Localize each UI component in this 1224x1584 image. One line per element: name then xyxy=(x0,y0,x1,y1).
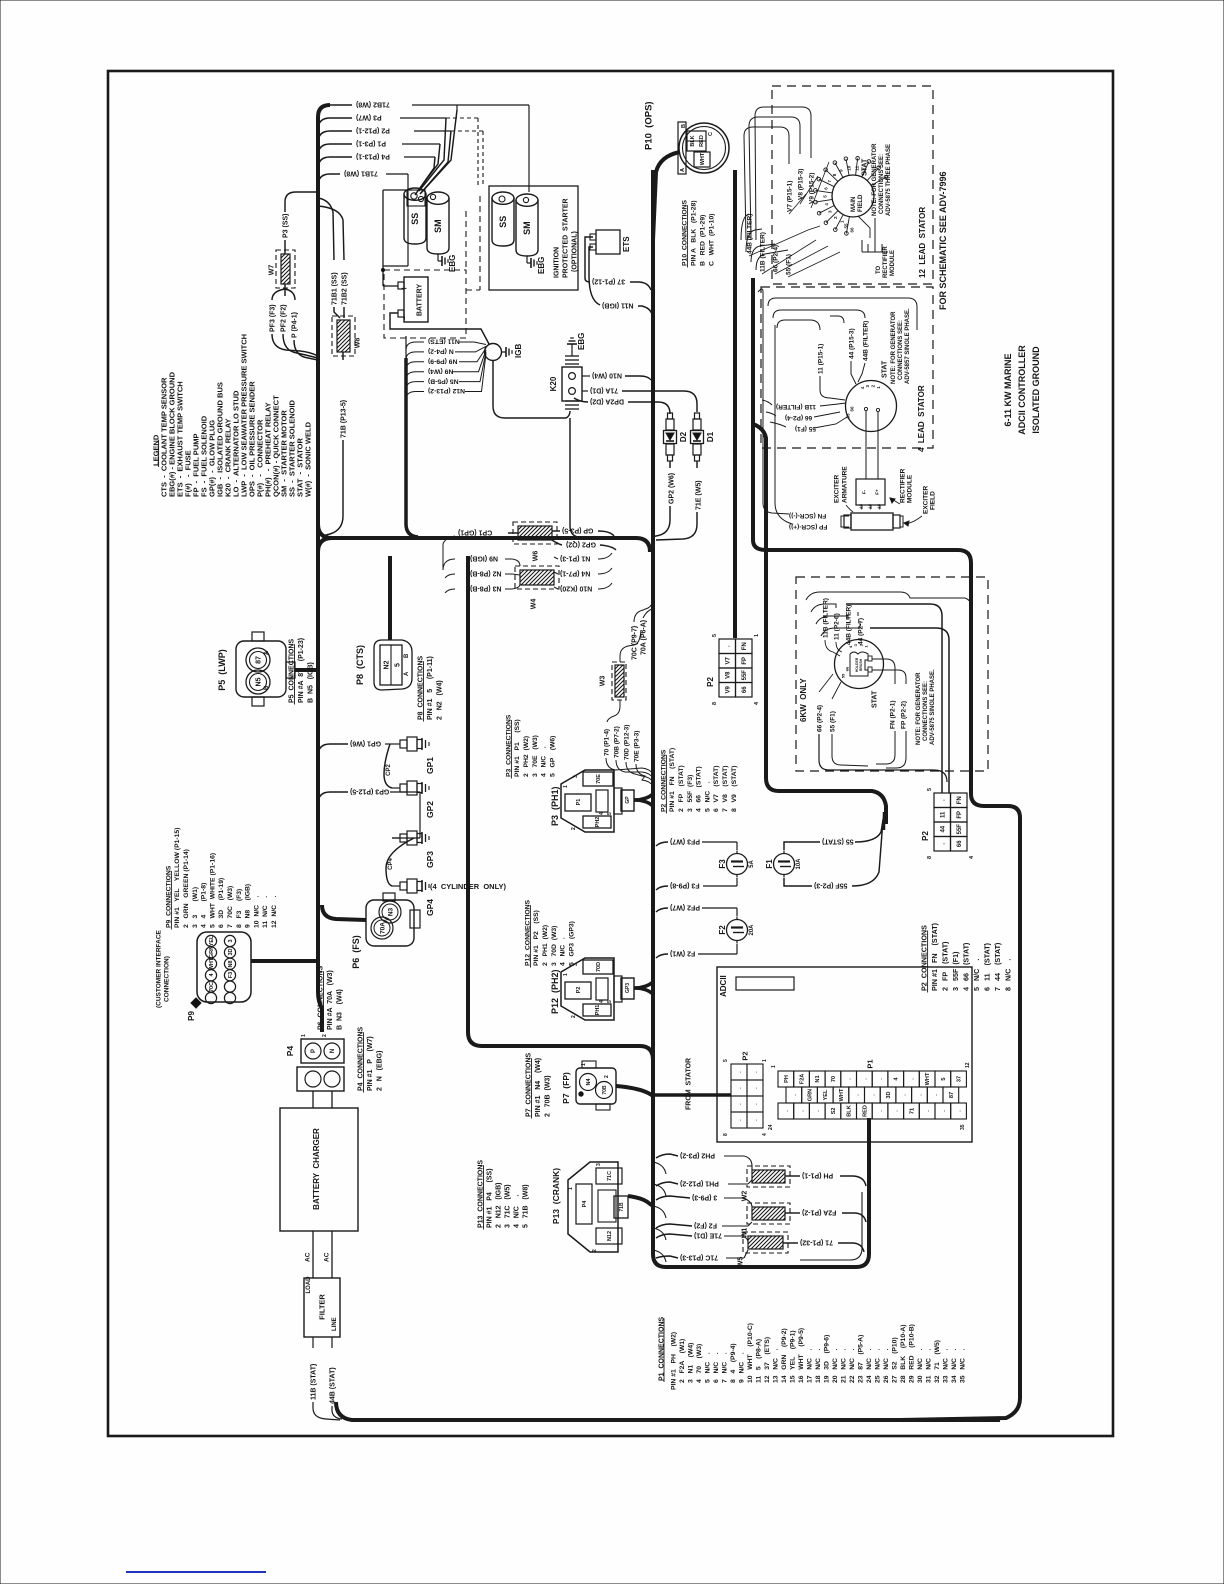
P9 diamond marker xyxy=(191,998,201,1008)
svg-text:FP (SCR-(+)): FP (SCR-(+)) xyxy=(789,523,827,530)
svg-text:W3: W3 xyxy=(600,676,607,687)
svg-text:10 N/C .: 10 N/C . xyxy=(253,895,260,928)
ground EBG under SM2 xyxy=(526,256,528,263)
svg-text:31 N/C .: 31 N/C . xyxy=(925,1349,932,1383)
svg-text:V7 (P15-1): V7 (P15-1) xyxy=(786,181,793,212)
svg-text:11: 11 xyxy=(940,811,946,818)
svg-text:K20: K20 xyxy=(549,376,558,391)
svg-text:F3: F3 xyxy=(718,859,727,869)
svg-text:5 GP (W6): 5 GP (W6) xyxy=(549,736,556,777)
svg-text:A: A xyxy=(680,168,686,172)
svg-text:P2: P2 xyxy=(921,831,930,841)
svg-text:IGNITION: IGNITION xyxy=(554,247,561,278)
svg-text:11B (STAT): 11B (STAT) xyxy=(310,1364,317,1400)
svg-text:5: 5 xyxy=(607,1000,613,1003)
svg-text:13 N/C .: 13 N/C . xyxy=(772,1349,779,1383)
svg-text:P6 (FS): P6 (FS) xyxy=(351,935,361,969)
svg-text:8 F3 (F3): 8 F3 (F3) xyxy=(236,889,243,928)
connector P6 (FS) xyxy=(366,900,414,946)
svg-text:5: 5 xyxy=(941,1077,947,1080)
svg-text:P1 (P3-1): P1 (P3-1) xyxy=(356,140,386,147)
svg-text:22 N/C .: 22 N/C . xyxy=(849,1349,856,1383)
fuse F2 xyxy=(727,920,748,941)
svg-text:55F: 55F xyxy=(957,824,963,835)
wire from stator to P2 grid xyxy=(653,1093,731,1097)
battery wiring xyxy=(382,190,384,286)
svg-text:P4: P4 xyxy=(582,1200,588,1208)
svg-text:3D: 3D xyxy=(886,1091,892,1098)
svg-text:35 N/C .: 35 N/C . xyxy=(959,1349,966,1383)
svg-text:ARMATURE: ARMATURE xyxy=(841,466,848,503)
svg-text:5 N/C .: 5 N/C . xyxy=(704,781,711,812)
connector P2 (upper) xyxy=(719,639,736,654)
svg-text:CP1 (GP1): CP1 (GP1) xyxy=(458,529,492,536)
bottom long harness run xyxy=(336,1402,1000,1420)
svg-text:4 N/C .: 4 N/C . xyxy=(514,1194,521,1228)
battery charger box xyxy=(280,1108,358,1231)
svg-text:FN: FN xyxy=(742,642,748,650)
svg-text:3 70D (W3): 3 70D (W3) xyxy=(551,926,558,966)
svg-text:5 N/C .: 5 N/C . xyxy=(704,1352,711,1383)
svg-text:P2: P2 xyxy=(706,677,715,687)
connector P7 (FP) xyxy=(576,1068,616,1104)
4 lead stator circle xyxy=(846,381,897,432)
sonic weld W6 xyxy=(513,522,557,544)
svg-text:FP: FP xyxy=(957,811,963,819)
W7 branch wires PF3/PF2/P xyxy=(284,284,286,289)
svg-text:PIN #1 5 (P1-11): PIN #1 5 (P1-11) xyxy=(427,656,434,720)
connector P13 (CRANK) xyxy=(568,1162,618,1252)
12 lead stator dashed box xyxy=(772,86,933,284)
W1 wires xyxy=(656,1196,690,1200)
svg-text:N3 (P8-B): N3 (P8-B) xyxy=(470,585,502,592)
svg-text:8 4 (P9-4): 8 4 (P9-4) xyxy=(730,1343,737,1383)
K20 wire DP2A (D2) xyxy=(574,398,588,402)
svg-text:71E (W5): 71E (W5) xyxy=(696,480,703,510)
svg-text:FN (SCR-(-)): FN (SCR-(-)) xyxy=(789,512,826,519)
svg-text:1: 1 xyxy=(568,1187,574,1190)
svg-text:26 N/C .: 26 N/C . xyxy=(883,1349,890,1383)
drawing border frame xyxy=(108,71,1113,1436)
svg-text:(4 CYLINDER ONLY): (4 CYLINDER ONLY) xyxy=(430,882,506,891)
svg-text:7 70C (W3): 7 70C (W3) xyxy=(227,886,234,928)
filter output wires 11B 44B xyxy=(312,1337,314,1348)
svg-text:1: 1 xyxy=(771,1065,777,1068)
svg-text:V8: V8 xyxy=(725,671,731,679)
svg-text:71B1 (W8): 71B1 (W8) xyxy=(344,170,378,177)
svg-text:CONNECTIONS SEE:: CONNECTIONS SEE: xyxy=(879,154,885,214)
svg-text:P1: P1 xyxy=(576,799,582,806)
svg-text:AC: AC xyxy=(304,1252,311,1262)
svg-text:FP (P2-2): FP (P2-2) xyxy=(900,701,907,729)
wire to second starter xyxy=(457,104,529,106)
svg-text:PF2 (F2): PF2 (F2) xyxy=(280,304,287,332)
4 lead thin wire runs xyxy=(758,289,789,514)
svg-text:70E: 70E xyxy=(596,774,602,784)
svg-text:2 PH1 (W2): 2 PH1 (W2) xyxy=(542,925,549,966)
starter motor SM (starter 1) xyxy=(427,198,449,254)
svg-text:12: 12 xyxy=(965,1062,971,1068)
svg-text:15 YEL (P9-1): 15 YEL (P9-1) xyxy=(789,1330,796,1383)
svg-text:35: 35 xyxy=(960,1124,966,1130)
svg-text:1: 1 xyxy=(969,788,975,791)
svg-text:87: 87 xyxy=(949,1092,955,1098)
svg-text:SS: SS xyxy=(498,216,508,228)
svg-text:GP4: GP4 xyxy=(425,899,435,916)
svg-text:2 F2A (W1): 2 F2A (W1) xyxy=(679,1339,686,1383)
W8 top wires 71B1/71B2 (SS) xyxy=(318,198,334,260)
connector P4 xyxy=(301,1039,344,1063)
svg-text:GRN: GRN xyxy=(808,1089,814,1101)
svg-text:N: N xyxy=(330,1049,336,1053)
svg-text:10A: 10A xyxy=(796,858,802,870)
svg-text:YEL: YEL xyxy=(209,935,215,946)
svg-text:N11 (ETS): N11 (ETS) xyxy=(428,338,460,345)
svg-text:71C (P13-3): 71C (P13-3) xyxy=(680,1254,718,1261)
K20 lower wire to harness xyxy=(570,418,636,538)
svg-text:PIN #1 FN (STAT): PIN #1 FN (STAT) xyxy=(930,922,939,991)
svg-text:F2A (P1-2): F2A (P1-2) xyxy=(802,1209,836,1216)
svg-text:18 N/C .: 18 N/C . xyxy=(815,1349,822,1383)
svg-text:P7 (FP): P7 (FP) xyxy=(561,1072,571,1104)
harness run right side middle xyxy=(753,278,1020,1420)
svg-text:PH1: PH1 xyxy=(595,1005,601,1016)
svg-text:SM: SM xyxy=(522,221,532,235)
svg-text:12 37 (ETS): 12 37 (ETS) xyxy=(764,1337,771,1383)
svg-text:CONNECTIONS SEE:: CONNECTIONS SEE: xyxy=(898,320,904,380)
svg-text:5 N/C .: 5 N/C . xyxy=(972,959,981,991)
svg-text:2 N (EBG): 2 N (EBG) xyxy=(376,1051,383,1091)
svg-text:PH2 (P3-2): PH2 (P3-2) xyxy=(680,1152,715,1159)
svg-text:19 3D (P9-6): 19 3D (P9-6) xyxy=(823,1335,830,1383)
svg-text:2 PH2 (W2): 2 PH2 (W2) xyxy=(523,736,530,777)
svg-text:11 N/C .: 11 N/C . xyxy=(262,896,269,928)
crank relay K20 xyxy=(562,367,582,401)
P13 harness stub arcs xyxy=(653,1162,666,1174)
wires fanning to starter solenoid xyxy=(421,110,457,193)
svg-text:F2 (W1): F2 (W1) xyxy=(670,950,695,957)
svg-text:W6: W6 xyxy=(533,551,540,562)
svg-text:4: 4 xyxy=(599,1000,605,1003)
dashed optional starter wires xyxy=(446,117,478,119)
4 lead label-to-pin wires xyxy=(820,376,845,400)
svg-text:4 70 (W3): 4 70 (W3) xyxy=(696,1344,703,1383)
svg-text:4: 4 xyxy=(762,1133,768,1136)
wires charger to filter AC xyxy=(312,1231,314,1278)
svg-text:W(#) - SONIC WELD: W(#) - SONIC WELD xyxy=(304,421,313,497)
glow plug GP2 xyxy=(392,787,400,789)
ADCII controller box xyxy=(717,967,972,1142)
svg-text:ADV-5875 SINGLE PHASE.: ADV-5875 SINGLE PHASE. xyxy=(930,669,936,745)
svg-text:3 3 (W1): 3 3 (W1) xyxy=(192,887,199,928)
svg-text:2 FP (STAT): 2 FP (STAT) xyxy=(941,941,950,991)
svg-text:30 N/C .: 30 N/C . xyxy=(917,1349,924,1383)
svg-text:EBG: EBG xyxy=(577,333,586,350)
svg-text:N12 (P13-2): N12 (P13-2) xyxy=(428,387,465,394)
svg-text:11 (P15-1): 11 (P15-1) xyxy=(817,344,824,374)
svg-text:37: 37 xyxy=(957,1076,963,1082)
svg-text:GP1 (W6): GP1 (W6) xyxy=(350,740,381,747)
svg-text:70C: 70C xyxy=(209,982,215,992)
svg-text:70A: 70A xyxy=(379,922,386,934)
svg-text:70 (P1-4): 70 (P1-4) xyxy=(603,729,610,756)
svg-text:GP2: GP2 xyxy=(425,801,435,818)
svg-text:P5 (LWP): P5 (LWP) xyxy=(217,649,227,691)
svg-text:GP3: GP3 xyxy=(425,851,435,868)
svg-text:BATTERY CHARGER: BATTERY CHARGER xyxy=(312,1128,321,1210)
W8 bottom wire 71B (P13-5) xyxy=(342,352,344,360)
6kw FN FP wires xyxy=(872,659,895,684)
svg-text:11: 11 xyxy=(855,165,860,170)
svg-text:2 N2 (W4): 2 N2 (W4) xyxy=(436,680,443,720)
svg-text:ADV-5857 SINGLE PHASE.: ADV-5857 SINGLE PHASE. xyxy=(905,308,911,384)
svg-text:WHT: WHT xyxy=(209,957,215,970)
svg-text:C: C xyxy=(708,132,714,136)
svg-text:6 V7 (STAT): 6 V7 (STAT) xyxy=(713,765,720,812)
svg-text:2 N12 (IGB): 2 N12 (IGB) xyxy=(495,1182,502,1228)
svg-text:66: 66 xyxy=(850,406,855,412)
svg-text:5 GP3 (GP3): 5 GP3 (GP3) xyxy=(568,921,575,966)
svg-text:5: 5 xyxy=(927,788,933,791)
svg-text:-: - xyxy=(398,316,410,320)
svg-text:W4: W4 xyxy=(531,599,538,610)
6KW ONLY dashed box xyxy=(796,577,988,771)
svg-text:70D (P12-3): 70D (P12-3) xyxy=(623,725,630,760)
svg-text:P1: P1 xyxy=(866,1059,875,1068)
svg-text:CONNECTION): CONNECTION) xyxy=(163,956,170,1002)
svg-text:N8: N8 xyxy=(228,960,234,967)
svg-text:P9: P9 xyxy=(187,1011,196,1021)
wire stubs top (71B2/P3/P2/P1/P4) xyxy=(318,105,352,117)
svg-text:11 5 (P8-A): 11 5 (P8-A) xyxy=(755,1339,762,1383)
svg-text:4 LEAD STATOR: 4 LEAD STATOR xyxy=(917,385,926,452)
svg-text:24 N/C .: 24 N/C . xyxy=(866,1349,873,1383)
svg-text:GP (P3-5): GP (P3-5) xyxy=(562,527,593,534)
svg-text:24: 24 xyxy=(768,1124,774,1130)
svg-text:4: 4 xyxy=(599,812,605,815)
svg-text:70D: 70D xyxy=(596,962,602,972)
stator leads down to rectifier module xyxy=(865,411,867,479)
GP4 jumper xyxy=(386,838,414,886)
svg-text:AC: AC xyxy=(323,1252,330,1262)
K20 wire 71A (D1) xyxy=(582,390,588,392)
svg-text:P12 (PH2): P12 (PH2) xyxy=(550,969,560,1014)
svg-text:66 (P2-4): 66 (P2-4) xyxy=(816,705,823,732)
svg-text:PIN #1 P1 (SS): PIN #1 P1 (SS) xyxy=(514,719,521,777)
P12 wire to harness xyxy=(634,988,653,994)
isolated ground bus IGB xyxy=(485,344,502,361)
svg-text:P3 (PH1): P3 (PH1) xyxy=(550,786,560,826)
svg-text:N4 (P7-1): N4 (P7-1) xyxy=(560,570,590,577)
svg-text:55 (STAT): 55 (STAT) xyxy=(822,838,854,845)
svg-text:2: 2 xyxy=(592,1249,598,1252)
svg-text:5: 5 xyxy=(723,1059,729,1062)
svg-text:F3: F3 xyxy=(228,972,234,978)
stator leads to rectifier xyxy=(868,218,882,252)
svg-text:PH2: PH2 xyxy=(595,817,601,828)
svg-text:(OPTIONAL): (OPTIONAL) xyxy=(572,231,579,272)
P10 harness elbow xyxy=(653,152,680,240)
svg-text:2: 2 xyxy=(322,1034,328,1037)
ground EBG under SM1 xyxy=(437,254,439,261)
svg-text:16 WHT (P9-5): 16 WHT (P9-5) xyxy=(798,1328,805,1383)
svg-text:71A (D1): 71A (D1) xyxy=(590,387,618,394)
svg-text:W8: W8 xyxy=(354,338,361,349)
ignition protected starter box xyxy=(489,186,578,290)
svg-text:1: 1 xyxy=(762,1059,768,1062)
svg-text:DP2A (D2): DP2A (D2) xyxy=(590,398,624,405)
svg-text:66: 66 xyxy=(742,686,748,693)
svg-text:6-11 KW MARINE: 6-11 KW MARINE xyxy=(1003,353,1013,426)
battery negative wire xyxy=(390,313,489,344)
svg-text:2 GRN GREEN (P1-14): 2 GRN GREEN (P1-14) xyxy=(183,849,190,928)
glow plug GP3 xyxy=(392,837,400,839)
svg-text:PIN #1 FN (STAT): PIN #1 FN (STAT) xyxy=(669,748,676,812)
svg-text:P8 (CTS): P8 (CTS) xyxy=(355,645,365,685)
svg-text:D2: D2 xyxy=(679,431,688,442)
svg-text:N10 (K20): N10 (K20) xyxy=(560,585,592,592)
svg-text:WHT: WHT xyxy=(839,1088,845,1101)
svg-text:-AC: -AC xyxy=(877,503,881,510)
svg-text:PIN #1 P4 (SS): PIN #1 P4 (SS) xyxy=(486,1168,493,1228)
svg-text:WHT: WHT xyxy=(700,152,706,165)
wire stub 71B1 (W8) xyxy=(318,174,340,186)
svg-text:BATTERY: BATTERY xyxy=(416,284,423,317)
P6 wire to harness xyxy=(322,905,366,920)
connector P9 (customer interface) xyxy=(197,932,251,1002)
svg-text:BRUSH: BRUSH xyxy=(859,658,863,671)
svg-text:SM: SM xyxy=(433,219,443,233)
solenoid terminal studs xyxy=(411,193,417,199)
svg-text:34 N/C .: 34 N/C . xyxy=(951,1349,958,1383)
svg-text:BLK: BLK xyxy=(690,135,696,146)
svg-text:66: 66 xyxy=(957,840,963,847)
starter solenoid SS (starter 1) xyxy=(404,194,426,244)
svg-text:EBG: EBG xyxy=(448,255,457,272)
svg-text:20 N/C .: 20 N/C . xyxy=(832,1349,839,1383)
svg-text:MODULE: MODULE xyxy=(890,250,896,276)
svg-text:2: 2 xyxy=(571,827,577,830)
diode D1 xyxy=(691,431,704,444)
svg-text:70E (P3-3): 70E (P3-3) xyxy=(633,731,640,762)
svg-text:1: 1 xyxy=(563,785,569,788)
svg-text:P2 (P12-1): P2 (P12-1) xyxy=(356,127,390,134)
svg-text:GP2 (W6): GP2 (W6) xyxy=(669,473,676,504)
svg-text:3: 3 xyxy=(573,775,579,778)
svg-text:GP3: GP3 xyxy=(625,983,631,993)
svg-text:17 N/C .: 17 N/C . xyxy=(806,1349,813,1383)
wire P3 (SS) from W7 xyxy=(284,240,286,254)
svg-text:FIELD: FIELD xyxy=(858,194,864,212)
svg-text:PROTECTED STARTER: PROTECTED STARTER xyxy=(563,198,570,278)
svg-text:3D: 3D xyxy=(228,948,234,955)
svg-text:GP: GP xyxy=(625,796,631,804)
svg-text:PIN A BLK (P1-28): PIN A BLK (P1-28) xyxy=(690,200,697,266)
svg-text:N1 (P1-3): N1 (P1-3) xyxy=(560,555,590,562)
6kw wires top xyxy=(806,592,971,606)
svg-text:MAIN: MAIN xyxy=(851,197,857,212)
glow plug GP1 xyxy=(392,743,400,745)
ADCII P1 terminal grid xyxy=(778,1071,794,1087)
svg-text:N10 (W4): N10 (W4) xyxy=(592,372,622,379)
svg-text:F3 (P9-8): F3 (P9-8) xyxy=(670,882,700,889)
wire harness spine (engine side) xyxy=(318,105,330,1032)
P9 wire to harness xyxy=(251,959,318,963)
svg-text:71B1 (SS): 71B1 (SS) xyxy=(331,272,338,305)
svg-text:B: B xyxy=(264,685,270,690)
svg-text:3: 3 xyxy=(228,939,234,942)
svg-text:N9 (IGB): N9 (IGB) xyxy=(470,555,498,562)
svg-text:2: 2 xyxy=(571,1015,577,1018)
blue reference line bottom left xyxy=(126,1571,266,1573)
svg-text:PIN #1 PH (W2): PIN #1 PH (W2) xyxy=(670,1332,677,1390)
P13 wire xyxy=(628,1196,653,1206)
svg-text:5: 5 xyxy=(394,663,401,667)
connector P2 (lower) xyxy=(934,793,951,808)
svg-text:P10 (OPS): P10 (OPS) xyxy=(643,101,654,150)
svg-text:1: 1 xyxy=(301,1034,307,1037)
svg-text:BLK: BLK xyxy=(847,1105,853,1117)
svg-text:5 WHT WHITE (P1-16): 5 WHT WHITE (P1-16) xyxy=(209,853,216,928)
svg-text:71E (D1): 71E (D1) xyxy=(694,1232,722,1239)
svg-text:W7: W7 xyxy=(268,265,275,276)
svg-text:71C: 71C xyxy=(607,1171,613,1181)
svg-text:GP1: GP1 xyxy=(425,757,435,774)
glow plug GP4 xyxy=(392,885,400,887)
svg-text:12 N/C .: 12 N/C . xyxy=(271,895,278,928)
svg-text:STAT: STAT xyxy=(882,360,889,378)
svg-text:TO: TO xyxy=(876,265,882,274)
svg-text:B: B xyxy=(404,653,410,658)
svg-text:PH1 (P12-2): PH1 (P12-2) xyxy=(680,1180,719,1187)
svg-text:IGB: IGB xyxy=(514,344,523,358)
svg-text:70B: 70B xyxy=(602,1085,608,1095)
exhaust temp switch ETS xyxy=(596,230,620,254)
svg-text:N5: N5 xyxy=(255,677,262,686)
svg-text:P (P4-1): P (P4-1) xyxy=(291,312,298,338)
IGB to K20 bottom wire xyxy=(493,361,570,418)
svg-text:4 66 (STAT): 4 66 (STAT) xyxy=(696,766,703,812)
wire GP2 (W6) from D2 xyxy=(669,461,671,468)
svg-text:EXCITER: EXCITER xyxy=(922,486,929,514)
svg-text:N2: N2 xyxy=(383,660,390,669)
svg-text:+: + xyxy=(399,286,409,291)
svg-text:N2 (P8-B): N2 (P8-B) xyxy=(470,570,502,577)
svg-text:SS: SS xyxy=(410,213,420,225)
svg-text:4 4 (P1-8): 4 4 (P1-8) xyxy=(201,883,208,928)
harness branch x=766 to bottom xyxy=(753,424,886,824)
svg-text:PF2 (W7): PF2 (W7) xyxy=(670,904,700,911)
svg-text:6KW ONLY: 6KW ONLY xyxy=(799,678,808,722)
svg-text:32 71 (W5): 32 71 (W5) xyxy=(934,1340,941,1383)
svg-text:87: 87 xyxy=(255,656,262,664)
svg-text:3 55F (F1): 3 55F (F1) xyxy=(951,951,960,991)
svg-text:6 3D (P1-19): 6 3D (P1-19) xyxy=(218,878,225,928)
svg-text:V8 (P15-3): V8 (P15-3) xyxy=(797,169,804,200)
svg-text:STAT: STAT xyxy=(872,690,879,708)
svg-text:44B (STAT): 44B (STAT) xyxy=(329,1367,336,1404)
svg-text:5: 5 xyxy=(712,634,718,637)
svg-text:4 N/C .: 4 N/C . xyxy=(560,937,567,966)
svg-text:3 (P9-3): 3 (P9-3) xyxy=(692,1194,717,1201)
starter solenoid SS (starter 2) xyxy=(492,198,514,246)
svg-text:71B2 (SS): 71B2 (SS) xyxy=(341,272,348,305)
svg-text:FN (P2-1): FN (P2-1) xyxy=(889,700,896,729)
svg-text:PH: PH xyxy=(784,1075,790,1083)
svg-text:RED: RED xyxy=(862,1105,868,1117)
4 lead stator dashed box xyxy=(761,287,933,448)
svg-text:A: A xyxy=(404,671,410,676)
